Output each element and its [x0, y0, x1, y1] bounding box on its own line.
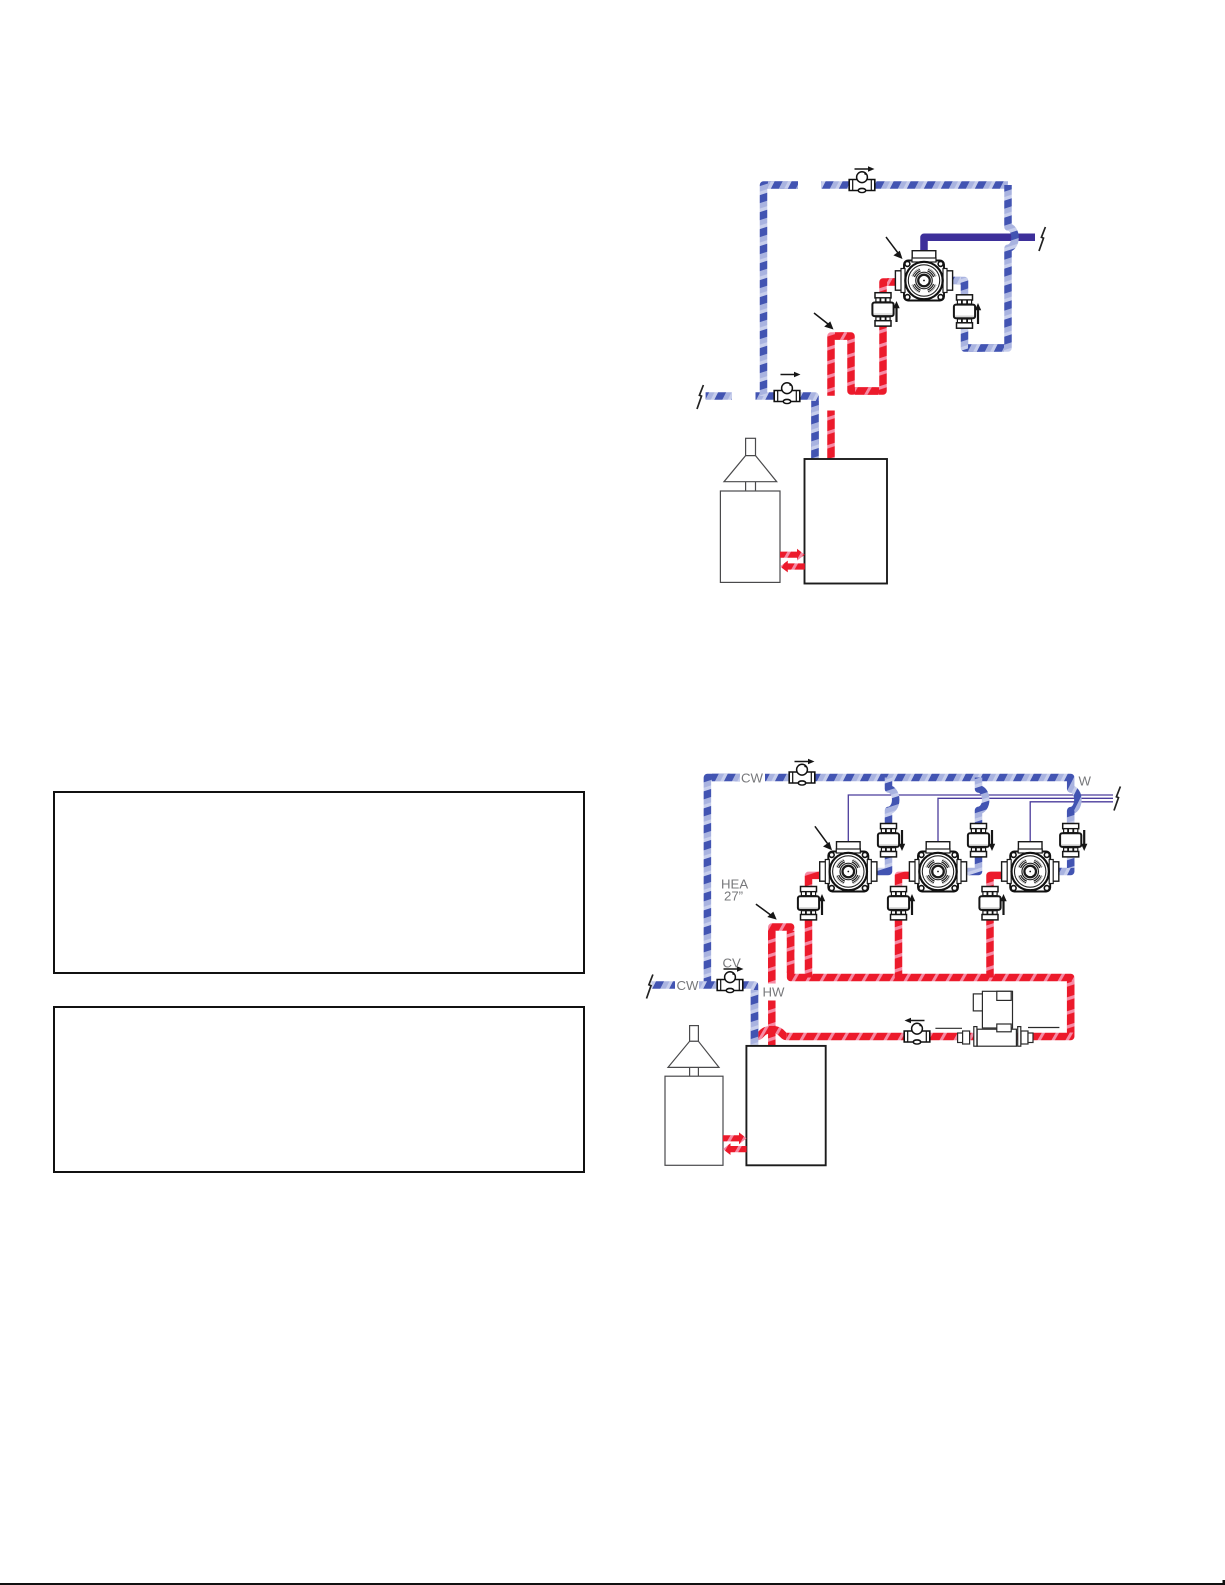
svg-text:CW: CW: [677, 978, 700, 993]
check valve hot M1: [798, 887, 819, 920]
flow arrow up: [909, 894, 915, 915]
svg-text:W: W: [1079, 774, 1092, 789]
wire: blue CW drop to valve M1 with hop: [872, 778, 896, 872]
label CW on top run: [741, 771, 764, 786]
red transfer arrows between tank and heater (lower diagram): [723, 1132, 747, 1155]
flow arrow up beside cold check valve: [975, 303, 981, 324]
ball valve CV on lower CW run: [717, 972, 743, 993]
recirculation pump: [935, 991, 1059, 1046]
break symbol on navy tempered lines: [1114, 787, 1120, 811]
label HEA 27in: [721, 877, 748, 904]
flow arrow above: [795, 759, 815, 765]
flow arrow down: [1081, 830, 1087, 851]
flow arrow up beside hot check valve: [893, 301, 899, 322]
flow arrow above left ball valve: [781, 372, 801, 378]
note box 2: [54, 1007, 584, 1172]
svg-text:27”: 27”: [724, 889, 743, 904]
wire: blue CW right drop with hop over purple, to mixing valve cold inlet: [948, 185, 1015, 348]
label CW on lower run: [677, 978, 700, 993]
wire: blue CW lower stub: [652, 981, 676, 989]
wire: blue CW left riser and top run left piece: [764, 185, 799, 396]
red transfer arrows between tank and heater (top diagram): [780, 549, 805, 573]
node: thin navy tempered-water line from valve M3: [1030, 802, 1113, 848]
check valve hot M2: [888, 887, 909, 920]
ball valve on recirc return: [904, 1023, 930, 1044]
wire: blue CW top run right piece: [821, 181, 1008, 189]
water heater (top diagram): [805, 459, 888, 584]
mixing valve M2: [909, 842, 966, 892]
flow arrow above: [724, 966, 744, 972]
expansion tank (top diagram): [720, 438, 780, 582]
wire: blue CW left riser and top run start: [707, 778, 740, 986]
check valve cold M1: [878, 824, 899, 857]
wire: red HW riser, heat trap and manifold: [772, 927, 1071, 1047]
wire: blue CW lower run into heater: [699, 985, 755, 1047]
wire: red recirc return with bridge over HW riser: [753, 1030, 1030, 1037]
ball valve on left CW run: [774, 383, 800, 404]
annotation arrow to mixing valve: [886, 237, 903, 259]
svg-text:CW: CW: [741, 771, 764, 786]
label CV above ball valve: [723, 956, 742, 971]
wire: purple mixed-water outlet pipe: [924, 237, 1035, 260]
check valve on hot inlet (top diagram): [872, 293, 893, 326]
svg-text:HW: HW: [763, 985, 786, 1000]
label HW beside riser: [763, 985, 786, 1000]
wire: red hot riser to valve M2: [899, 875, 915, 977]
expansion tank (lower diagram): [665, 1026, 723, 1166]
check valve cold M3: [1060, 824, 1081, 857]
flow arrow up: [1000, 894, 1006, 915]
label W at top right: [1079, 774, 1092, 789]
check valve hot M3: [979, 887, 1000, 920]
annotation arrow to heat trap: [814, 313, 834, 330]
wire: red hot riser to valve M3: [990, 875, 1006, 977]
check valve on cold inlet (top diagram): [954, 295, 975, 328]
break symbol on purple pipe end: [1039, 227, 1045, 251]
wire: red HW riser lower piece from heater: [827, 411, 835, 461]
break symbol on left CW pipe end: [697, 385, 703, 409]
wire: blue CW left horizontal into heater drop: [756, 396, 816, 461]
node: thin navy tempered-water line from valve M1: [848, 795, 1113, 848]
mixing valve M1: [820, 842, 877, 892]
flow arrow above top ball valve: [855, 166, 875, 172]
mixing valve (top diagram): [895, 251, 952, 301]
annotation arrow to valve M1: [815, 826, 832, 850]
note box 1: [54, 792, 584, 973]
wire: blue CW stub on left horizontal: [706, 392, 732, 400]
annotation arrow to heat trap (lower): [756, 904, 777, 920]
flow arrow up: [819, 894, 825, 915]
mixing valve M3: [1002, 842, 1059, 892]
wire: blue CW top run to valve M3 with hop over navy lines: [765, 778, 1078, 872]
wire: red HW heat-trap and hot inlet to mixing valve: [831, 282, 900, 396]
flow arrow down: [899, 830, 905, 851]
flow arrow above pointing left: [905, 1018, 925, 1024]
node: thin navy tempered-water line from valve M2: [938, 798, 1113, 848]
water heater (lower diagram): [746, 1046, 825, 1165]
wire: red hot riser to valve M1: [809, 875, 825, 977]
wire: blue CW drop to valve M2 with hop: [962, 778, 986, 872]
flow arrow down: [989, 830, 995, 851]
check valve cold M2: [968, 824, 989, 857]
footer rule: [0, 1580, 1225, 1585]
break symbol on lower CW pipe end: [647, 975, 653, 999]
svg-text:CV: CV: [723, 956, 742, 971]
ball valve on top CW run: [849, 172, 875, 193]
ball valve on top CW run (lower diagram): [789, 764, 815, 785]
